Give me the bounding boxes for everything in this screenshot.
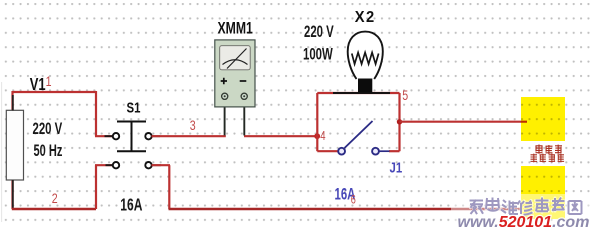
label X2 xyxy=(355,9,376,26)
pin number 1 xyxy=(46,73,52,89)
multimeter XMM1 body xyxy=(215,40,255,107)
wire: to S1 pole2 left xyxy=(95,164,113,166)
watermark text 家电维修资料网 (approximated strokes) xyxy=(470,198,582,215)
value 16A (J1) xyxy=(335,185,356,204)
lamp X2 base xyxy=(358,79,372,93)
wire: V1 loop right lower vertical xyxy=(95,165,97,209)
node 3 label xyxy=(190,118,196,134)
label XMM1 xyxy=(218,20,253,38)
multimeter XMM1 lead right (black) xyxy=(243,106,245,135)
switch J1 right pin stub xyxy=(379,150,390,152)
svg-text:220 V: 220 V xyxy=(304,23,334,42)
wire: XMM right to node 4 xyxy=(244,135,317,137)
node 6 label xyxy=(351,193,356,207)
wire: V1 loop left vertical xyxy=(11,91,13,209)
switch S1 top bar xyxy=(117,121,146,123)
multimeter XMM1 minus mark xyxy=(240,80,247,82)
wire: J1 block top xyxy=(317,92,399,94)
svg-text:S1: S1 xyxy=(127,99,141,116)
value 220 V (V1) xyxy=(33,120,63,139)
pin number 2 xyxy=(52,190,58,206)
faint canvas left border xyxy=(1,82,3,222)
node 4 label xyxy=(320,130,325,144)
wire: bottom return run xyxy=(169,208,522,210)
svg-text:V1: V1 xyxy=(30,75,46,94)
wire: J1 right stub red xyxy=(389,150,400,152)
switch J1 left terminal xyxy=(338,148,345,155)
junction node 4 dot xyxy=(314,133,320,139)
wire: J1 left stub xyxy=(317,150,338,152)
switch S1 pole2 left terminal xyxy=(113,162,119,168)
svg-text:220 V: 220 V xyxy=(33,120,63,139)
wire: J1 block right vertical xyxy=(398,93,400,151)
svg-text:3: 3 xyxy=(190,118,196,134)
socket lower yellow block xyxy=(521,166,565,219)
junction node 5 dot xyxy=(397,119,402,124)
multimeter XMM1 needle xyxy=(227,49,247,69)
label 电源插座 (red) xyxy=(531,154,565,163)
lamp X2 bulb xyxy=(348,32,383,79)
lamp X2 pins xyxy=(333,92,390,94)
value 100W (X2) xyxy=(303,45,333,64)
svg-text:1: 1 xyxy=(46,73,52,89)
watermark url www.520101.com xyxy=(458,214,590,231)
value 220 V (X2) xyxy=(304,23,334,42)
wire: V1 loop bottom xyxy=(12,208,96,210)
wire: S1 pole1 right to node3/XMM xyxy=(152,135,226,137)
value 50 Hz (V1) xyxy=(34,142,63,161)
label 电磁炉 (red) xyxy=(536,145,563,154)
socket upper yellow block xyxy=(521,97,565,141)
watermark translucent band xyxy=(451,194,590,230)
wire: V1 loop top xyxy=(13,91,97,93)
svg-text:4: 4 xyxy=(320,130,325,144)
switch S1 pole1 right terminal xyxy=(145,133,151,139)
svg-text:J1: J1 xyxy=(390,159,403,176)
svg-text:XMM1: XMM1 xyxy=(218,20,253,38)
svg-text:6: 6 xyxy=(351,193,356,207)
multimeter XMM1 terminal left xyxy=(222,93,228,99)
node 5 label xyxy=(402,88,408,104)
switch S1 bottom bar xyxy=(117,150,146,152)
wire: V1 loop right upper vertical xyxy=(95,91,97,136)
switch J1 blade xyxy=(345,121,373,148)
svg-text:www.520101.com: www.520101.com xyxy=(458,214,590,230)
wire: S1 pole2 right stub xyxy=(152,164,171,166)
AC source V1 body xyxy=(6,110,23,180)
lamp X2 filament xyxy=(352,53,379,65)
multimeter XMM1 display face xyxy=(220,46,251,70)
svg-text:2: 2 xyxy=(52,190,58,206)
wire: drop to bottom return xyxy=(168,165,170,209)
label J1 xyxy=(390,159,403,176)
switch S1 pin stubs xyxy=(105,136,162,165)
switch S1 pole1 left terminal xyxy=(113,133,119,139)
svg-text:5: 5 xyxy=(402,88,408,104)
label V1 xyxy=(30,75,46,94)
multimeter XMM1 terminal right xyxy=(241,93,247,99)
wire: J1 block left vertical xyxy=(316,93,318,151)
value 16A (S1) xyxy=(120,195,142,215)
wire: node 5 to socket xyxy=(400,121,528,123)
wire: to S1 pole1 left xyxy=(95,135,113,137)
multimeter XMM1 plus mark xyxy=(221,78,227,84)
svg-text:50 Hz: 50 Hz xyxy=(34,142,63,161)
svg-text:100W: 100W xyxy=(303,45,333,64)
multimeter XMM1 lead left (black) xyxy=(224,106,226,135)
multimeter XMM1 scale arc xyxy=(223,60,248,65)
switch S1 pole2 right terminal xyxy=(145,162,151,168)
svg-text:16A: 16A xyxy=(120,195,142,215)
label S1 xyxy=(127,99,141,116)
svg-text:X2: X2 xyxy=(355,9,376,26)
switch J1 right terminal xyxy=(372,148,379,155)
switch S1 plunger xyxy=(131,122,133,152)
AC source V1 bottom pin xyxy=(12,95,14,208)
